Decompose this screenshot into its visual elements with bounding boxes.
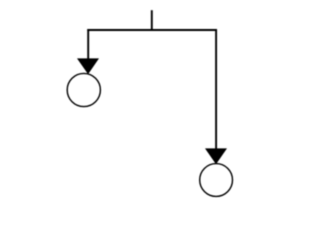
wire: horizontal connector bar xyxy=(87,29,217,31)
node: left circle xyxy=(67,73,100,106)
node: right circle xyxy=(200,164,233,197)
wire: right branch vertical xyxy=(215,29,217,149)
wire: top stub into root junction xyxy=(151,10,153,30)
arrowhead: right edge xyxy=(205,148,227,164)
wire: left branch vertical xyxy=(87,29,89,59)
arrowhead: left edge xyxy=(77,58,99,74)
